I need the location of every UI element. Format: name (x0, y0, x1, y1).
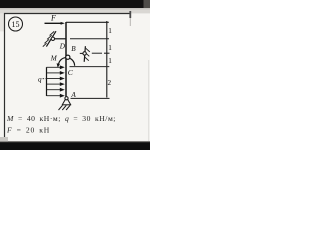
svg-text:A: A (70, 91, 76, 99)
svg-text:В: В (71, 45, 76, 53)
svg-text:D: D (59, 43, 66, 51)
svg-text:15: 15 (12, 20, 20, 29)
svg-text:F: F (50, 14, 56, 23)
svg-text:F = 20 кН: F = 20 кН (6, 125, 50, 134)
svg-text:2: 2 (108, 79, 112, 87)
svg-text:1: 1 (108, 27, 112, 35)
svg-text:q: q (38, 76, 42, 84)
svg-text:M = 40 кН·м; q = 30 кН/м;: M = 40 кН·м; q = 30 кН/м; (6, 114, 116, 123)
svg-text:1: 1 (108, 44, 112, 52)
svg-text:1: 1 (108, 57, 112, 65)
svg-text:M: M (50, 54, 58, 62)
